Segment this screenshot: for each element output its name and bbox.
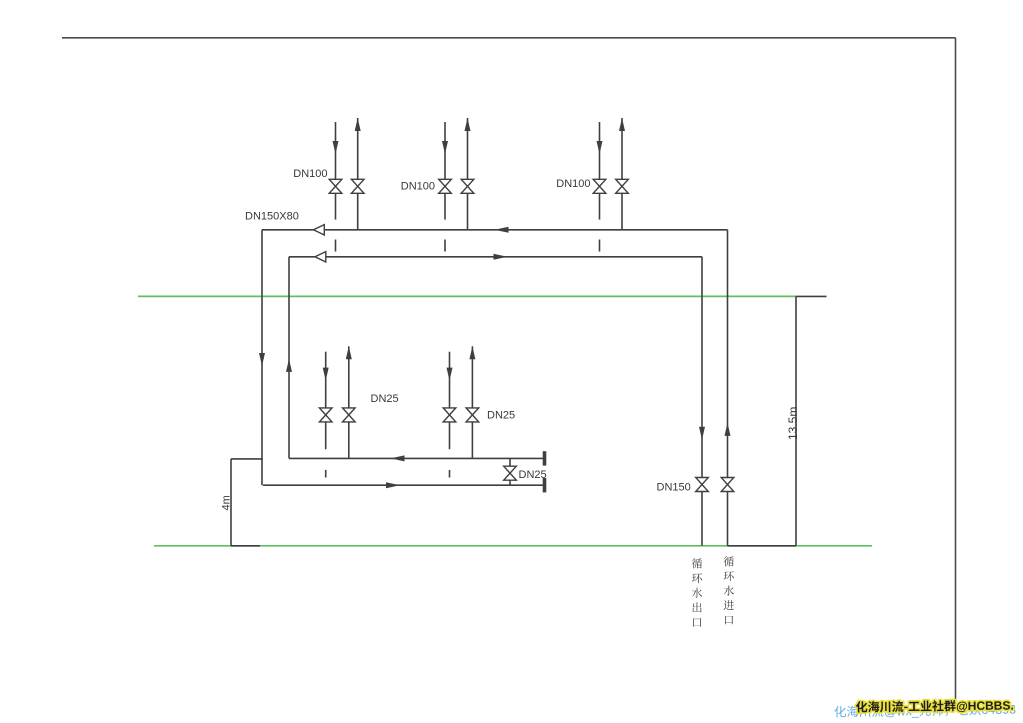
dimension 13.5m extension top bbox=[796, 295, 827, 297]
wire left downcomer x262 bbox=[261, 230, 263, 485]
wire header pipe 1 left segment bbox=[262, 229, 314, 231]
flow arrow down DN25 group1 bbox=[323, 368, 329, 381]
flow arrow left on header 1 bbox=[495, 227, 509, 233]
dimension 4m extension top bbox=[231, 458, 263, 460]
valve DN100 group3 down bbox=[593, 179, 606, 193]
valve DN100 group1 up bbox=[351, 179, 364, 193]
wire DN25 group2 down branch bbox=[449, 352, 451, 450]
flow arrow down group1 bbox=[333, 141, 339, 154]
wire dashed crossover group1 bbox=[335, 240, 337, 252]
label 循环水出口 (circulating water outlet) bbox=[692, 558, 702, 568]
wire DN100 group1 down branch bbox=[335, 122, 337, 220]
flow arrow down on left downcomer bbox=[259, 353, 265, 366]
svg-text:@HCBBS.: @HCBBS. bbox=[956, 698, 1014, 713]
wire dashed crossover DN25 group1 bbox=[325, 470, 327, 478]
wire dashed crossover group3 bbox=[599, 240, 601, 252]
valve DN25 group2 down bbox=[443, 408, 456, 422]
flow arrow up DN25 group1 bbox=[346, 346, 352, 359]
flow arrow right on lower supply bbox=[386, 482, 400, 488]
flow arrow up DN25 group2 bbox=[469, 346, 475, 359]
svg-text:DN150X80: DN150X80 bbox=[245, 211, 299, 223]
pipe end cap upper bbox=[543, 451, 547, 465]
valve DN100 group3 up bbox=[616, 179, 629, 193]
flow arrow down DN25 group2 bbox=[447, 368, 453, 381]
label 4m bbox=[221, 495, 233, 510]
flow arrow down on outlet riser bbox=[699, 427, 705, 440]
wire left riser x289 bbox=[288, 257, 290, 459]
wire lower supply pipe bbox=[263, 484, 545, 486]
pipe end cap lower bbox=[543, 478, 547, 492]
wire DN100 group1 up branch bbox=[357, 118, 359, 230]
valve DN100 group1 down bbox=[329, 179, 342, 193]
wire outlet riser x702 bbox=[701, 257, 703, 546]
flow arrow up group2 bbox=[465, 118, 471, 131]
flow arrow up group1 bbox=[355, 118, 361, 131]
valve DN100 group2 up bbox=[461, 179, 474, 193]
drawing frame right border bbox=[955, 38, 957, 700]
wire header pipe 1 main segment bbox=[324, 229, 727, 231]
lower grade line (green) bbox=[154, 545, 872, 547]
wire bypass upper stub bbox=[509, 458, 511, 466]
wire dashed crossover DN25 group2 bbox=[449, 470, 451, 478]
flow arrow up group3 bbox=[619, 118, 625, 131]
flow arrow up on left riser bbox=[286, 359, 292, 372]
wire inlet riser x727.5 bbox=[727, 230, 729, 546]
svg-text:DN150: DN150 bbox=[657, 482, 691, 494]
valve DN25 group2 up bbox=[466, 408, 479, 422]
dimension 4m foot tick bbox=[231, 545, 260, 547]
upper grade line (green) bbox=[138, 295, 796, 297]
wire header pipe 2 main segment bbox=[326, 256, 702, 258]
wire dashed crossover group2 bbox=[444, 240, 446, 252]
svg-text:DN25: DN25 bbox=[519, 469, 547, 481]
dimension 13.5m line bbox=[795, 296, 797, 545]
wire DN100 group2 down branch bbox=[444, 122, 446, 220]
wire DN25 group2 up branch bbox=[471, 346, 473, 458]
wire DN25 group1 up branch bbox=[348, 346, 350, 458]
valve DN25 group1 down bbox=[319, 408, 332, 422]
valve DN25 bypass bbox=[504, 466, 517, 480]
watermark black text bbox=[856, 698, 1014, 714]
wire lower return pipe bbox=[289, 457, 545, 459]
svg-text:DN100: DN100 bbox=[401, 181, 435, 193]
label 循环水进口 (circulating water inlet) bbox=[724, 556, 734, 566]
valve DN150 inlet bbox=[721, 478, 734, 492]
svg-text:4m: 4m bbox=[221, 495, 233, 510]
label 13.5m bbox=[786, 407, 800, 440]
flow arrow up on inlet riser bbox=[725, 423, 731, 436]
valve DN25 group1 up bbox=[343, 408, 356, 422]
flow arrow left on lower return bbox=[391, 455, 405, 461]
watermark yellow halo bbox=[856, 698, 1014, 714]
svg-text:DN25: DN25 bbox=[371, 393, 399, 405]
flow arrow down group2 bbox=[442, 141, 448, 154]
wire DN100 group3 up branch bbox=[621, 118, 623, 230]
svg-text:DN100: DN100 bbox=[556, 178, 590, 190]
svg-text:DN100: DN100 bbox=[293, 168, 327, 180]
valve DN150 outlet bbox=[696, 478, 709, 492]
reducer DN150X80 on header 1 bbox=[314, 225, 325, 235]
reducer on header 2 bbox=[315, 252, 326, 262]
wire DN100 group2 up branch bbox=[467, 118, 469, 230]
drawing frame top border bbox=[62, 37, 956, 39]
wire DN25 group1 down branch bbox=[325, 352, 327, 450]
flow arrow right on header 2 bbox=[494, 254, 508, 260]
svg-text:DN25: DN25 bbox=[487, 409, 515, 421]
watermark blue text bbox=[834, 702, 1016, 719]
wire header pipe 2 left segment bbox=[289, 256, 315, 258]
dimension 4m line bbox=[230, 459, 232, 546]
wire bypass lower stub bbox=[509, 481, 511, 486]
dimension 13.5m foot bbox=[728, 545, 797, 547]
flow arrow down group3 bbox=[597, 141, 603, 154]
svg-text:13.5m: 13.5m bbox=[786, 407, 800, 440]
valve DN100 group2 down bbox=[439, 179, 452, 193]
wire DN100 group3 down branch bbox=[599, 122, 601, 220]
